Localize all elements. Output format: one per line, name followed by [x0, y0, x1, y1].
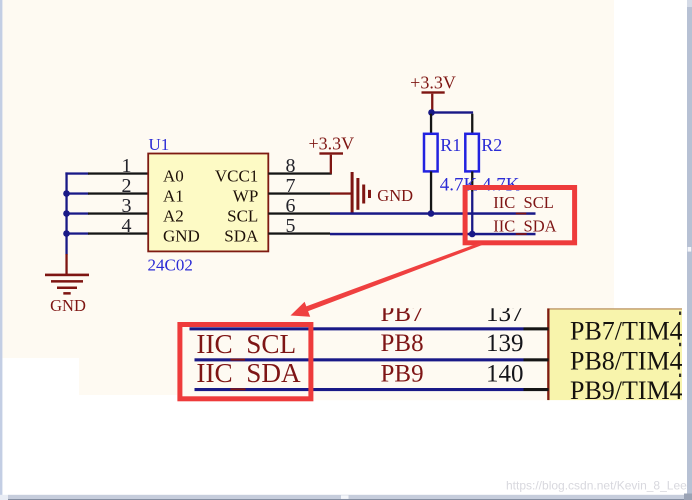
svg-text:3: 3: [122, 195, 132, 217]
svg-text:GND: GND: [50, 296, 86, 315]
ground GND (WP) bar1: [351, 172, 354, 213]
svg-text:GND: GND: [377, 186, 413, 205]
pin 8 (VCC1): [268, 172, 332, 174]
sheet background (main schematic area): [2, 0, 614, 358]
wire +3.3V to R2 top: [431, 111, 473, 113]
svg-text:U1: U1: [149, 135, 170, 154]
pin 139 stub: [524, 358, 549, 361]
ground GND (left) bar2: [51, 280, 83, 283]
cut glyph remnants at right edge: [679, 312, 681, 315]
annotation arrow shaft: [305, 242, 482, 311]
junction node R2/SDA: [469, 231, 476, 238]
svg-text:https://blog.csdn.net/Kevin_8_: https://blog.csdn.net/Kevin_8_Lee: [506, 478, 687, 492]
pin 6 (SCL): [268, 212, 330, 214]
svg-text:140: 140: [486, 361, 524, 388]
ground GND (WP) bar4: [368, 190, 371, 198]
resistor R1 top pin: [430, 114, 432, 134]
pin 1 (A0): [88, 172, 149, 174]
bottom window edge: [8, 499, 692, 500]
wire PB9 / IIC_SDA net (lower): [195, 388, 524, 391]
wire WP to GND: [330, 192, 352, 194]
resistor R1 body: [424, 134, 438, 172]
window left border: [0, 0, 2, 495]
bottom scrollbar track: [8, 495, 692, 499]
right scrollbar top light: [687, 0, 692, 7]
svg-text:4.7K: 4.7K: [482, 174, 520, 195]
right scrollbar track: [687, 0, 692, 494]
svg-text:SDA: SDA: [224, 226, 259, 245]
svg-text:VCC1: VCC1: [215, 166, 258, 185]
svg-text:WP: WP: [233, 186, 259, 205]
pin 5 (SDA): [268, 232, 330, 234]
ground GND (left) stem: [65, 254, 67, 274]
op chip U1 body: [148, 154, 268, 252]
wire pin2: [65, 192, 88, 194]
svg-text:IIC SCL: IIC SCL: [196, 329, 296, 359]
svg-text:4: 4: [122, 215, 132, 237]
svg-text:1: 1: [122, 155, 132, 177]
ground GND (left) bar4: [63, 292, 70, 295]
wire IIC_SDA (pin5): [330, 233, 536, 236]
bottom scrollbar corner-left: [0, 495, 8, 500]
svg-text:PB8/TIM4: PB8/TIM4: [570, 346, 683, 375]
wire bus vertical (pins 1-4 to GND): [65, 172, 67, 254]
power +3.3V (at VCC1) stem: [330, 155, 332, 174]
junction node pin2: [63, 190, 70, 197]
power +3.3V (at VCC1) bar: [319, 152, 343, 154]
pin 2 (A1): [88, 192, 149, 194]
power +3.3V (pull-ups) bar: [422, 91, 445, 93]
MCU part body (yellow pin table): [547, 308, 682, 400]
wire pin4: [65, 232, 88, 234]
wire IIC_SCL (pin6): [330, 212, 536, 215]
svg-text:PB9/TIM4: PB9/TIM4: [570, 376, 683, 405]
ground GND (left) bar3: [57, 287, 77, 290]
annotation red box (lower): [180, 325, 311, 399]
ground GND (left) bar1: [45, 274, 89, 277]
resistor R2 bottom pin: [471, 171, 473, 191]
svg-text:SCL: SCL: [227, 206, 258, 225]
pin 3 (A2): [88, 212, 149, 214]
svg-text:R2: R2: [481, 135, 502, 155]
pin 140 stub: [524, 388, 549, 391]
resistor R1 bottom pin: [430, 171, 432, 211]
svg-text:139: 139: [486, 330, 524, 357]
junction node pin4: [63, 230, 70, 237]
ground GND (WP) bar2: [356, 178, 359, 210]
svg-text:A1: A1: [163, 186, 184, 205]
right scrollbar handle: [688, 247, 692, 252]
resistor R2 body: [465, 134, 479, 172]
pin 7 (WP): [268, 192, 330, 194]
svg-text:IIC SDA: IIC SDA: [196, 358, 301, 388]
wire PB8 / IIC_SCL net (lower): [195, 358, 524, 361]
svg-text:PB8: PB8: [381, 330, 424, 357]
pin 4 (GND): [88, 232, 149, 234]
svg-text:2: 2: [122, 175, 132, 197]
junction node pin3: [63, 210, 70, 217]
annotation arrow head: [291, 302, 311, 317]
svg-text:GND: GND: [163, 226, 200, 245]
ground GND (WP) bar3: [362, 185, 365, 204]
svg-text:IIC SDA: IIC SDA: [493, 216, 556, 235]
svg-text:PB7/TIM4: PB7/TIM4: [570, 317, 683, 346]
wire pin3: [65, 212, 88, 214]
junction node at R1 top: [428, 109, 435, 116]
annotation red box (upper): [465, 188, 574, 243]
svg-text:PB9: PB9: [381, 361, 424, 388]
svg-text:A2: A2: [163, 206, 184, 225]
svg-text:A0: A0: [163, 166, 184, 185]
svg-text:4.7K: 4.7K: [440, 174, 478, 195]
svg-text:+3.3V: +3.3V: [410, 72, 456, 92]
resistor R2 top pin: [471, 114, 473, 134]
bottom scrollbar handle: [341, 495, 349, 499]
wire pin1: [65, 172, 88, 174]
svg-text:R1: R1: [440, 135, 461, 155]
bottom-right corner: [684, 494, 692, 500]
svg-text:+3.3V: +3.3V: [308, 133, 354, 153]
pin 137 stub: [524, 327, 549, 330]
svg-text:24C02: 24C02: [148, 256, 193, 275]
junction node R1/SCL: [428, 210, 435, 217]
power +3.3V (pull-ups) stem: [431, 94, 433, 112]
wire PB7 net (lower): [190, 327, 524, 330]
svg-text:IIC SCL: IIC SCL: [493, 193, 554, 212]
wire R2 to IIC_SDA: [471, 192, 473, 235]
